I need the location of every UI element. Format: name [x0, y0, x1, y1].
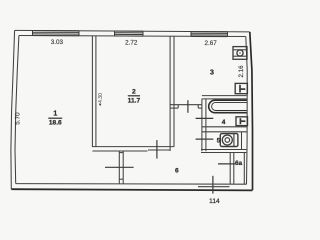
- svg-text:6: 6: [175, 168, 179, 175]
- wall sanitary block top: [202, 96, 247, 99]
- bathtub: [209, 100, 247, 113]
- wire outer left wall line: [11, 30, 15, 189]
- wall sanitary block left: [202, 99, 206, 151]
- wall corridor left: [119, 151, 123, 184]
- svg-text:4.30: 4.30: [98, 93, 104, 103]
- svg-text:6a: 6a: [235, 160, 242, 167]
- svg-text:2.16: 2.16: [238, 65, 245, 78]
- kitchen sink: [233, 47, 247, 60]
- wall wc duct: [241, 132, 243, 150]
- svg-text:2: 2: [132, 89, 136, 96]
- wall rooms 1-2: [92, 36, 96, 147]
- wire outer bottom wall line: [11, 189, 252, 190]
- svg-text:2.67: 2.67: [204, 40, 217, 47]
- wire entrance threshold: [198, 186, 230, 188]
- door tick entrance: [212, 176, 214, 194]
- svg-text:114: 114: [209, 198, 220, 205]
- svg-text:3.03: 3.03: [51, 39, 64, 46]
- door tick bath: [196, 117, 214, 119]
- towel rail box bath: [236, 117, 248, 126]
- svg-text:11.7: 11.7: [128, 97, 141, 104]
- arrow dim 4.30: [99, 104, 102, 107]
- wall closet 6a right duct: [243, 153, 245, 184]
- svg-text:18.6: 18.6: [49, 120, 62, 127]
- wall room2 bottom: [92, 147, 174, 151]
- wall closet 6a left: [230, 153, 234, 184]
- towel rail box kitchen: [235, 83, 247, 93]
- wire outer top wall line: [15, 30, 250, 32]
- label room1 bar: [48, 117, 62, 119]
- label room2 bar: [128, 95, 140, 97]
- wire inner left wall line: [15, 36, 19, 184]
- wire inner top wall line: [19, 36, 246, 37]
- door tick kitchen: [187, 100, 189, 113]
- svg-text:2.72: 2.72: [125, 39, 138, 46]
- wall wc bottom: [201, 150, 246, 153]
- wall kitchen-corridor: [170, 105, 202, 108]
- svg-text:1: 1: [53, 111, 57, 118]
- window W3 hatch: [191, 32, 228, 37]
- wall bath-wc: [202, 127, 247, 132]
- svg-text:4: 4: [222, 119, 226, 126]
- window W1 hatch: [33, 31, 80, 36]
- door tick wc: [196, 138, 214, 140]
- door tick closet 6a: [218, 163, 236, 165]
- door tick room2: [156, 140, 158, 159]
- wire inner right wall line: [246, 37, 247, 185]
- svg-text:5: 5: [217, 138, 221, 145]
- wall rooms 2-3: [170, 36, 174, 151]
- wire outer right wall line: [250, 32, 253, 190]
- svg-text:5.70: 5.70: [15, 112, 22, 125]
- svg-text:3: 3: [210, 70, 214, 77]
- toilet: [220, 134, 238, 147]
- window W2 hatch: [115, 31, 144, 36]
- wire inner bottom wall line: [16, 183, 247, 186]
- door tick room1: [105, 166, 134, 168]
